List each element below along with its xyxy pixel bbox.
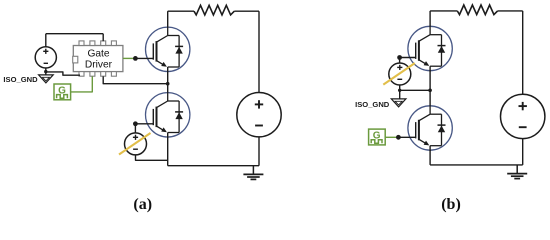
svg-text:(b): (b) [441,196,461,213]
wire collector drop to high-side IGBT (b) [429,11,431,27]
wire collector drop to high-side IGBT (a) [167,11,169,27]
wire to low-side supply (a) [134,124,136,133]
IGBT Q2 low-side (a) (with antiparallel diode) [146,92,190,138]
wire top rail right segment (a) [234,10,259,12]
ISO_GND signal-ground triangle (b) [391,99,406,107]
IGBT Q4 low-side (b) (with antiparallel diode) [408,105,452,151]
wire top rail left segment (b) [430,10,457,12]
svg-text:Driver: Driver [85,59,113,70]
wire midpoint node vertical (a) [167,71,169,92]
node midpoint junction (a) [166,82,170,86]
wire emitter to bottom rail (a) [167,137,169,166]
DC voltage source V1 (a) [237,93,281,137]
wire U1 output (green) (a) [123,57,135,59]
wire G1 to U1 signal pin (a) [71,76,93,92]
node midpoint junction (b) [428,89,432,93]
node gate high-side (a) [133,56,138,61]
wire top rail right segment (b) [498,10,523,12]
node gate low-side (a) [133,121,138,126]
earth ground (a) [243,166,263,180]
wire emitter to bottom rail (b) [429,150,431,165]
wire to Q3 gate (b) [400,57,416,59]
node gate low-side (b) [396,135,401,140]
signal generator box G1 (a) (G with square wave) [54,84,71,100]
node ISO_GND junction (b) [398,89,401,92]
svg-text:ISO_GND: ISO_GND [355,100,390,109]
wire to Q1 gate (a) [135,57,153,59]
wire to Q4 gate (b) [398,136,416,138]
wire top rail left segment (a) [168,10,194,12]
wire supply- to ISO_GND node (b) [399,85,401,99]
wire down to U1 pin VCC (a) [102,34,104,42]
wire supply- to ISO_GND node (a) [45,68,47,75]
resistor R load (a) [194,5,234,15]
wire U1 return to midpoint (a) [103,76,167,83]
wire ISO_GND to U1 pin GND (a) [46,72,80,75]
wire bottom rail (a) [168,165,259,167]
wire right leg bottom (a) [258,137,260,166]
earth ground (b) [507,165,527,179]
wire right leg bottom (b) [522,139,524,165]
svg-text:Gate: Gate [87,49,109,60]
wire supply top run (a) [46,33,103,35]
svg-text:ISO_GND: ISO_GND [3,75,38,84]
isolated gate supply source V5 (b) (crossed) [383,63,415,85]
node gate high-side (b) [397,55,402,60]
signal generator box G2 (b) (G with square wave) [369,129,386,145]
DC voltage source V4 (b) [501,94,545,138]
wire right leg top (a) [258,11,260,92]
driver supply source V2 (a) [35,47,56,68]
IGBT Q3 high-side (b) (with antiparallel diode) [408,26,452,72]
wire bottom rail (b) [430,164,523,166]
wire to Q2 gate (a) [135,123,153,125]
wire to high-side supply (b) [399,58,401,64]
wire right leg top (b) [522,11,524,94]
IGBT Q1 high-side (a) (with antiparallel diode) [146,26,190,72]
node ISO_GND junction (a) [44,70,47,73]
wire supply+ up (a) [45,34,47,47]
wire ISO_GND node to midpoint (b) [400,89,430,91]
ISO_GND signal-ground triangle (a) [39,75,54,83]
wire low-side supply- to emitter (a) [136,155,168,160]
resistor R load (b) [457,5,497,15]
wire G2 to gate node (b) [385,136,398,138]
wire midpoint node vertical (b) [429,71,431,106]
gate driver IC U1 [73,41,123,76]
isolated gate supply source V3 (a) (crossed) [119,133,151,155]
svg-text:(a): (a) [133,196,152,213]
